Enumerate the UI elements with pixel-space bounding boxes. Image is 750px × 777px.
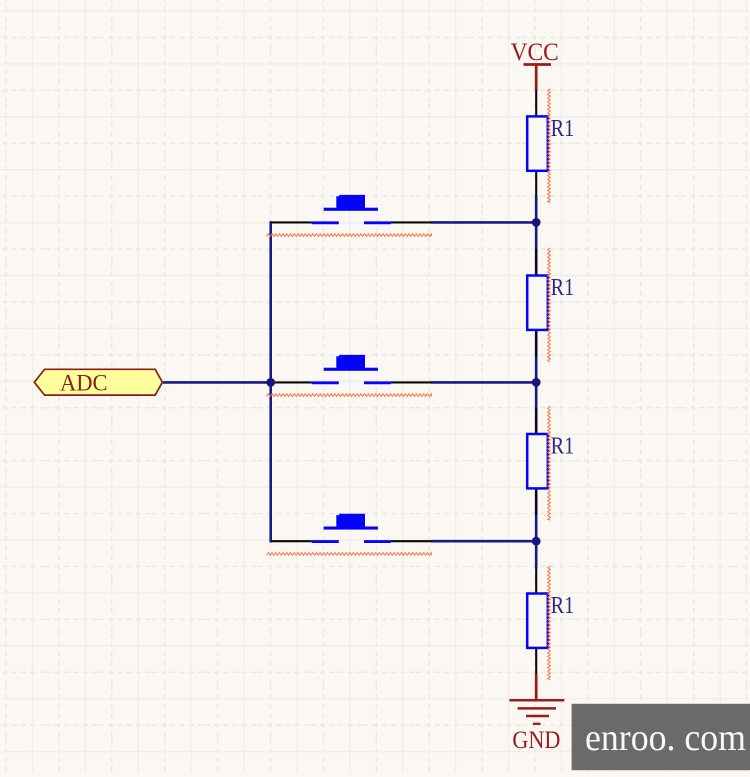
wire (button row 1 to resistor column) xyxy=(431,221,538,224)
wire (button row 3 to resistor column) xyxy=(431,540,538,543)
junction node at (536,222) xyxy=(532,218,541,227)
pushbutton switch S3 xyxy=(271,514,431,542)
ERC marker squiggle (resistor R1 (second)) xyxy=(548,248,551,362)
wire (left vertical bus) xyxy=(269,221,272,542)
resistor R1 (top) pins xyxy=(535,90,537,197)
resistor R1 (second) body xyxy=(527,276,548,330)
resistor R1 (third) body xyxy=(527,434,548,488)
pushbutton switch S1 xyxy=(271,195,431,223)
svg-text:R1: R1 xyxy=(551,115,575,142)
resistor R1 (top) body xyxy=(527,116,548,170)
svg-text:VCC: VCC xyxy=(511,39,559,66)
svg-text:enroo. com: enroo. com xyxy=(585,717,746,759)
svg-text:R1: R1 xyxy=(551,592,575,619)
wire (ADC to bus) xyxy=(163,381,272,384)
ERC marker squiggle (resistor R1 (top)) xyxy=(548,89,551,203)
junction node at (536,382) xyxy=(532,378,541,387)
ERC marker squiggle (resistor R1 (bottom)) xyxy=(548,566,551,680)
ERC marker squiggle (button row 2) xyxy=(267,394,432,397)
svg-text:R1: R1 xyxy=(551,433,575,460)
junction node at (271,382) xyxy=(266,378,275,387)
ERC marker squiggle (resistor R1 (third)) xyxy=(548,406,551,520)
svg-text:ADC: ADC xyxy=(60,371,108,397)
pushbutton switch S2 xyxy=(271,355,431,383)
resistor R1 (second) pins xyxy=(535,249,537,357)
watermark enroo.com xyxy=(572,704,750,770)
resistor R1 (third) pins xyxy=(535,408,537,515)
junction node at (536,541) xyxy=(532,537,541,546)
wire (button row 2 to resistor column) xyxy=(431,381,538,384)
power symbol VCC xyxy=(511,39,559,90)
resistor R1 (bottom) body xyxy=(527,594,548,648)
ground symbol GND xyxy=(509,674,564,754)
wire (vertical net between resistors) xyxy=(535,197,538,569)
svg-text:GND: GND xyxy=(512,727,560,754)
resistor R1 (bottom) pins xyxy=(535,568,537,675)
ERC marker squiggle (button row 1) xyxy=(267,234,432,237)
ERC marker squiggle (button row 3) xyxy=(267,553,432,556)
svg-text:R1: R1 xyxy=(551,274,575,301)
net port ADC xyxy=(34,369,162,396)
